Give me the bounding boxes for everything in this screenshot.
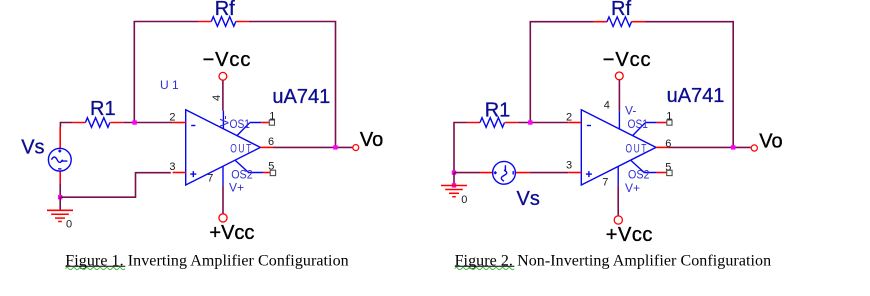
op-amp U1 pin 6 OUT stub [260,146,273,148]
node junction ground pin (fig2) [452,183,456,187]
node junction output/feedback [333,145,337,149]
resistor R1 pin stubs [73,122,124,124]
wire: output to Vo (fig2) [669,146,751,148]
wire: feedback loop left+top+right [134,22,335,148]
ground 0 symbol (fig2) [441,186,467,197]
svg-text:OS2: OS2 [628,168,650,182]
resistor Rf pin stubs [198,21,248,23]
svg-text:0: 0 [66,219,72,231]
svg-text:V+: V+ [625,181,640,195]
svg-text:V+: V+ [229,180,244,194]
svg-text:Vs: Vs [21,136,44,158]
op-amp U2 pin 7 stub [617,167,619,186]
op-amp U2 pin 1 terminal square [667,120,672,125]
svg-text:5: 5 [665,162,671,174]
svg-text:3: 3 [169,161,175,173]
svg-text:Rf: Rf [611,0,631,20]
svg-text:V-: V- [218,115,232,126]
op-amp U1 pin 4 stub [222,111,224,129]
svg-text:uA741: uA741 [272,86,330,108]
svg-text:Vo: Vo [360,129,383,151]
op-amp U1 pin 2 stub [173,122,186,124]
op-amp U2 OS1 connector [633,123,657,136]
caption 1 grammar squiggle [66,268,125,270]
op-amp U2 pin 4 stub [618,111,620,129]
-Vcc terminal circle [219,72,227,80]
svg-text:6: 6 [268,136,274,148]
node junction output/feedback (fig2) [731,145,735,149]
op-amp U2 pin 3 stub [568,172,581,174]
op-amp U2 triangle body [581,110,656,185]
svg-text:2: 2 [566,112,572,124]
Vo terminal circle [353,145,359,151]
wire: output to Vo [273,146,352,148]
svg-text:OUT: OUT [626,142,649,156]
op-amp U1 OS1 connector [237,123,261,136]
resistor R12 pin stubs [468,122,518,124]
source VS1 pin stubs [59,127,61,183]
op-amp U1 pin 5 stub [263,172,270,174]
source VS1 sine source [48,148,71,171]
op-amp U2 non-inverting input plus [586,171,592,177]
Vo terminal circle (fig2) [751,145,757,151]
op-amp U2 pin 5 stub [656,172,666,174]
svg-text:−Vcc: −Vcc [603,49,652,71]
op-amp U1 pin 3 stub [173,172,186,174]
ground 0 symbol [47,210,73,221]
svg-text:1: 1 [269,111,275,123]
wire: ground stub (fig2) [453,173,455,186]
resistor R1 zigzag [85,118,110,128]
svg-text:5: 5 [268,160,274,172]
source VS2 pin stubs [480,172,530,174]
wire: tee to source to pin 3 (fig2) [454,172,568,174]
+Vcc terminal circle [219,214,227,222]
op-amp U1 triangle body [186,110,261,185]
wire: pin 7 to +Vcc terminal [222,185,224,213]
svg-text:7: 7 [207,173,213,185]
source VS2 sine source (rotated) [493,161,516,184]
svg-text:+Vcc: +Vcc [209,222,254,244]
resistor Rf2 zigzag [607,17,632,27]
resistor Rf zigzag [211,17,236,27]
op-amp U2 pin 2 stub [568,122,581,124]
op-amp U1 pin 1 stub [261,122,269,124]
svg-text:OUT: OUT [230,142,253,156]
svg-text:R1: R1 [485,99,511,121]
node junction R1/Rf/pin2 [132,120,136,124]
svg-text:OS1: OS1 [230,117,251,131]
wire: ground tee to R1 to pin 2 (fig2) [454,123,568,173]
resistor Rf2 pin stubs [594,21,645,23]
+Vcc terminal circle (fig2) [614,216,622,224]
svg-text:OS1: OS1 [628,117,649,131]
svg-text:Figure 1. Inverting Amplifier: Figure 1. Inverting Amplifier Configurat… [65,252,348,269]
node junction ground tee (fig2) [452,170,456,174]
svg-text:−Vcc: −Vcc [203,49,252,71]
svg-text:Figure 2. Non-Inverting Amplif: Figure 2. Non-Inverting Amplifier Config… [455,252,772,269]
op-amp U2 inverting input minus [587,125,591,127]
svg-text:U 1: U 1 [160,78,179,92]
wire: ground stub [59,197,61,210]
op-amp U1 OS2 connector [235,161,263,173]
op-amp U2 pin 6 OUT stub [656,146,669,148]
wire: source bottom to node [59,183,61,197]
svg-text:V-: V- [625,103,636,117]
svg-text:4: 4 [211,95,223,101]
svg-text:0: 0 [461,194,467,206]
svg-text:4: 4 [604,99,610,111]
op-amp U1 inverting input minus [191,125,195,127]
svg-text:Vs: Vs [517,188,540,210]
wire: node to pin 3 [60,173,171,198]
caption 2 grammar squiggle [455,268,514,270]
svg-text:uA741: uA741 [667,85,725,107]
svg-text:R1: R1 [90,98,116,120]
svg-text:+Vcc: +Vcc [606,224,653,246]
svg-text:2: 2 [169,112,175,124]
op-amp U1 pin 1 terminal square [269,120,274,125]
op-amp U1 non-inverting input plus [190,171,196,177]
svg-text:Vo: Vo [759,130,782,152]
resistor R12 zigzag [480,118,505,128]
op-amp U1 pin 5 terminal square [270,170,275,175]
wire: pin 7 to +Vcc terminal (fig2) [617,185,619,216]
caption 1 underline [66,265,126,267]
op-amp U2 pin 1 stub [657,122,667,124]
wire: -Vcc terminal to pin 4 (fig2) [618,80,620,111]
svg-text:1: 1 [666,110,672,122]
op-amp U2 OS2 connector [631,161,656,173]
svg-text:3: 3 [566,160,572,172]
svg-text:OS2: OS2 [231,167,253,181]
op-amp U1 pin 7 stub [222,167,224,186]
wire: feedback loop left+top+right (fig2) [530,22,733,148]
-Vcc terminal circle (fig2) [615,72,623,80]
op-amp U2 pin 5 terminal square [667,170,672,175]
caption 2 underline [455,265,515,267]
svg-text:Rf: Rf [215,0,235,20]
node junction R1/Rf/pin2 (fig2) [528,120,532,124]
wire: -Vcc terminal to pin 4 [222,80,224,110]
node junction source/ground [58,195,62,199]
svg-text:7: 7 [602,176,608,188]
wire: Vs to R1 to pin 2 [60,123,172,128]
